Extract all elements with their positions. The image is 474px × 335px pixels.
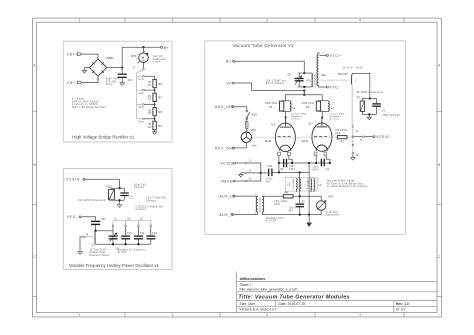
node grid bus (303, 94, 305, 96)
wire tap to VCSIG pin (354, 136, 363, 138)
svg-text:Diameter 50mm: Diameter 50mm (90, 254, 110, 257)
svg-text:Fan: Fan (252, 143, 257, 147)
node heater a (278, 162, 280, 164)
ground (R/C1) (367, 117, 371, 120)
node heater e (329, 162, 331, 164)
wire mod bus to C2 (261, 172, 268, 174)
frame zone ticks bottom (125, 313, 404, 317)
node R/C1 bottom (368, 113, 370, 115)
svg-text:Rev: 1.0: Rev: 1.0 (396, 302, 409, 306)
meter M?1 (317, 194, 340, 216)
wire R7-R8 (144, 102, 154, 108)
port VHT+ (67, 53, 82, 57)
wire SEC bottom to VTC- (318, 85, 326, 87)
node C9 bottom (112, 243, 114, 245)
svg-text:R9: R9 (158, 124, 162, 128)
capacitor C5 (289, 196, 306, 214)
svg-text:C5: C5 (301, 200, 305, 204)
wire top rail (111, 187, 124, 189)
svg-text:R?: R? (357, 95, 361, 99)
svg-text:R7: R7 (158, 96, 162, 100)
port AUX_15V (215, 105, 234, 109)
ground (bridge) (82, 70, 86, 73)
node meter branch (142, 46, 144, 48)
svg-text:VFO: VFO (67, 215, 76, 219)
svg-text:3mA: 3mA (138, 106, 144, 109)
svg-text:100n: 100n (312, 167, 319, 169)
vacuum tube U1 (265, 118, 295, 155)
node tap2 (154, 89, 156, 91)
grid wire (gray) (252, 136, 352, 138)
port VMOD (221, 179, 236, 183)
wire B+ to tank (235, 61, 305, 73)
svg-text:25W: 25W (274, 204, 280, 206)
pin SEC top (317, 53, 319, 56)
svg-text:B: B (34, 163, 36, 167)
transformer T1 primary (256, 197, 258, 213)
svg-text:Filament Xfmr: Filament Xfmr (266, 217, 284, 220)
tap bus (352, 127, 354, 152)
ground (C6) (120, 83, 124, 86)
svg-text:C?2: C?2 (268, 164, 273, 168)
svg-text:Parallel 500uH: Parallel 500uH (293, 178, 295, 189)
pin J2 (245, 172, 247, 174)
transformer T1 secondary (262, 197, 264, 213)
node rail B a (278, 171, 280, 173)
capacitor C11 (134, 227, 145, 245)
svg-text:C4: C4 (326, 167, 330, 171)
bottom rail R/C1 (362, 113, 376, 115)
svg-text:KP1-4 Vacuum: KP1-4 Vacuum (266, 83, 285, 85)
node R/C1 top (369, 97, 371, 99)
wire R2/L2 to U2 anode (321, 111, 323, 118)
ground (taps) (351, 158, 355, 161)
svg-text:15k 100W Wirewound: 15k 100W Wirewound (78, 199, 106, 202)
node tank top (303, 72, 305, 74)
svg-text:U1: U1 (271, 122, 275, 126)
tap stub 3 (137, 104, 143, 106)
port AUX_GND (215, 146, 235, 150)
capacitor C12 (146, 227, 157, 245)
wire VMOD to J3 (235, 180, 245, 182)
wire pickup top to R/C1 (352, 73, 370, 98)
svg-text:4 sets of 2 x HVP20: 4 sets of 2 x HVP20 (72, 103, 98, 106)
svg-text:Copper Tube: Copper Tube (90, 251, 107, 254)
svg-text:Title: Vacuum Tube Generator M: Title: Vacuum Tube Generator Modules (238, 294, 349, 300)
svg-text:P?1: P?1 (307, 80, 312, 83)
svg-text:M?2: M?2 (131, 54, 137, 58)
node rail B b (299, 171, 301, 173)
transformer core (315, 74, 316, 87)
wire VHT+ to bridge (82, 54, 99, 59)
svg-text:5x 80V: 5x 80V (118, 252, 127, 254)
svg-text:HVP-20 20kV 750mA: HVP-20 20kV 750mA (72, 100, 99, 103)
node bottom rail (118, 199, 120, 201)
tap pin J5b (352, 144, 354, 146)
svg-text:Ceramic: Ceramic (146, 200, 157, 203)
svg-text:Calibrated: Calibrated (326, 214, 340, 217)
capacitor C10 (121, 227, 132, 245)
primary coil PRI (311, 73, 314, 87)
svg-text:Variable Frequency Hartley Pow: Variable Frequency Hartley Power Oscilla… (69, 263, 160, 268)
wire tap1 to chain (144, 76, 154, 79)
wire SEC top to VTC+ (319, 54, 326, 56)
wire AUX_LD to T1 (235, 195, 258, 197)
svg-text:C10 = 500p 5kV: C10 = 500p 5kV (146, 198, 167, 200)
bridge pin labels (91, 57, 108, 81)
grid rail R2/L2 (318, 101, 328, 112)
svg-text:Ceramic: Ceramic (134, 186, 145, 189)
svg-text:EL34: EL34 (265, 139, 272, 143)
port B+ out (161, 46, 170, 50)
svg-text:M?1: M?1 (328, 194, 334, 198)
node tap3 (154, 104, 156, 106)
svg-text:80uF 450V: 80uF 450V (106, 79, 120, 81)
node heater d (315, 162, 317, 164)
svg-text:R2: R2 (306, 105, 310, 109)
svg-text:HR-100R: HR-100R (335, 130, 347, 132)
resistor R10 (78, 185, 114, 203)
node heater b (291, 162, 293, 164)
wire to main ground (308, 215, 310, 223)
svg-text:AUX_N: AUX_N (219, 213, 233, 217)
svg-text:VCSIG: VCSIG (66, 178, 80, 182)
svg-text:VTC+: VTC+ (330, 54, 342, 58)
svg-text:VHT-: VHT- (67, 81, 78, 85)
svg-text:M?3: M?3 (251, 128, 257, 132)
tap stub 2 (137, 89, 143, 91)
svg-text:6.3V 8A: 6.3V 8A (266, 220, 276, 223)
svg-text:100n: 100n (266, 179, 273, 181)
svg-text:U2: U2 (308, 122, 312, 126)
svg-text:HVBR: HVBR (106, 56, 114, 60)
meter M?2 (131, 47, 167, 63)
jumper pin C12 (150, 221, 152, 225)
svg-text:Resistor: Resistor (291, 117, 300, 120)
svg-text:3: 3 (266, 18, 268, 22)
ground (R9) (152, 132, 156, 135)
svg-text:KiCad E.D.A. kicad 4.0.7: KiCad E.D.A. kicad 4.0.7 (240, 307, 277, 311)
sheet: Vacuum Tube Generator (205, 41, 406, 234)
fan motor (241, 128, 257, 147)
port VHT- (67, 81, 82, 85)
wire L5 to bottom rail (96, 243, 113, 246)
svg-text:Vacuum Tube Generator v1: Vacuum Tube Generator v1 (233, 43, 294, 48)
note L5 (90, 248, 110, 257)
svg-text:L5: L5 (92, 243, 96, 247)
svg-text:Variable Air Capacitor: Variable Air Capacitor (118, 248, 146, 251)
wire AUX_N to T1 (234, 212, 258, 215)
inductor L3 (287, 178, 300, 192)
tap bus (136, 73, 138, 119)
capacitor C8 (91, 217, 105, 225)
svg-text:Date: 2015-07-15: Date: 2015-07-15 (279, 302, 306, 306)
tap stub 1 (137, 75, 143, 77)
svg-text:5kV: 5kV (289, 211, 294, 213)
svg-text:R4: R4 (285, 191, 289, 195)
anode arrow U2 (321, 117, 324, 120)
svg-text:2W: 2W (148, 99, 153, 101)
jumper J10 (125, 221, 127, 225)
wire R9 to ground (154, 130, 156, 132)
svg-text:475~450: 475~450 (106, 81, 117, 83)
wire ground to J2 (241, 173, 245, 174)
svg-text:3: 3 (266, 313, 268, 317)
port VCSIG in (66, 178, 85, 182)
tap stub 4 (137, 118, 143, 120)
capacitor C4 (312, 159, 329, 172)
svg-text:10 Turn 5/16": 10 Turn 5/16" (90, 248, 107, 251)
svg-text:8 x Diode: 8 x Diode (72, 99, 85, 101)
resistor R8 (153, 108, 156, 116)
bridge rectifier HVBR (89, 59, 106, 76)
svg-text:PICKUP: PICKUP (338, 72, 348, 76)
capacitor C7 (120, 184, 146, 200)
inductor L1 (290, 101, 306, 121)
wire bridge minus to ground (84, 68, 89, 71)
port VTC- (326, 86, 340, 90)
node heater c (308, 162, 310, 164)
node C8/L5 (94, 230, 96, 232)
jumper rail top (113, 220, 151, 222)
resistor R1 (265, 101, 284, 112)
port VCSIG out (373, 135, 390, 139)
node tap4 (154, 118, 156, 120)
note bifilar choke (327, 180, 368, 189)
svg-text:C7: C7 (129, 196, 133, 200)
ground (J8) (78, 252, 82, 255)
svg-text:B+: B+ (226, 60, 232, 64)
svg-text:VMOD: VMOD (221, 179, 233, 183)
resistor R7 (153, 93, 156, 101)
tap pin 3 (143, 104, 145, 106)
secondary coil SEC (317, 55, 318, 86)
pin J3 (245, 180, 247, 182)
wire J2 to mod bus (247, 172, 261, 174)
capacitor C3 (280, 159, 295, 171)
ground (J2) (239, 174, 243, 177)
svg-text:1mA: 1mA (138, 78, 144, 81)
svg-text:AMInnovations: AMInnovations (240, 277, 266, 281)
wire R6-R7 (144, 88, 154, 94)
svg-text:CP: CP (287, 73, 291, 77)
svg-text:2R1~10Rx: 2R1~10Rx (274, 201, 288, 203)
coupling link line (321, 79, 348, 81)
port VF (227, 81, 235, 85)
svg-text:1mA DC: 1mA DC (153, 55, 163, 58)
svg-text:C11: C11 (140, 231, 145, 235)
top rail R/C1 (362, 98, 376, 100)
svg-text:4: 4 (359, 313, 361, 317)
svg-text:J10: J10 (127, 217, 132, 220)
wire grid split (286, 91, 323, 101)
svg-text:5k 100W Wirewound: 5k 100W Wirewound (357, 91, 383, 94)
bifilar choke box (285, 177, 317, 191)
svg-text:2mA: 2mA (138, 92, 144, 95)
port B+ (226, 60, 235, 64)
node bottom rail gnd (308, 213, 310, 215)
resistor R? 5k (357, 91, 383, 115)
svg-text:4: 4 (359, 18, 361, 22)
svg-text:C6: C6 (128, 78, 132, 82)
tap pin 2 (143, 89, 145, 91)
svg-text:File: vacuum_tube_generator_1_: File: vacuum_tube_generator_1_2.sch (240, 288, 298, 292)
tap pin J6a (352, 152, 354, 154)
wire VCSIG to R10 node (85, 179, 120, 188)
sheet box 1 (63, 41, 172, 142)
sheet frame (33, 18, 442, 317)
inductor L5 (94, 231, 97, 243)
port AUX_LD (220, 195, 237, 199)
tap pin J4a (352, 126, 354, 128)
node VF bus (303, 89, 305, 91)
wire VHT- to bridge (82, 76, 99, 82)
resistor R9 (153, 121, 156, 130)
wire AUX_15V to SW1 (234, 107, 247, 111)
tap pin 1 (143, 75, 145, 77)
svg-text:~1: ~1 (96, 57, 100, 59)
wire to ground (368, 114, 370, 117)
svg-text:1: 1 (79, 313, 81, 317)
svg-text:Sheet: /: Sheet: / (240, 283, 252, 287)
capacitor C1 (372, 99, 400, 117)
port VFO (67, 215, 81, 219)
svg-text:VTC-: VTC- (330, 86, 341, 90)
node tank bottom (303, 86, 305, 88)
jumper J9 (112, 221, 114, 225)
svg-text:12h-1200pF set: 12h-1200pF set (266, 79, 286, 82)
wire VCSIG to J1 (236, 162, 245, 164)
wire C2 to rail B (273, 171, 310, 173)
resistor R3 (335, 130, 347, 143)
wire R8-R9 (144, 116, 154, 121)
wire AUX_GND to fan (234, 142, 246, 148)
sheet: Variable Frequency Hartley Power Oscillator (63, 169, 172, 270)
svg-text:B: B (438, 163, 440, 167)
svg-text:on 13mm diameter Ferrite Rope: on 13mm diameter Ferrite Rope (327, 185, 368, 188)
node mod bus (260, 172, 262, 174)
wire heater c through L4 to bottom rail (308, 163, 310, 215)
svg-text:2: 2 (172, 313, 174, 317)
svg-text:C12: C12 (152, 231, 157, 235)
svg-text:VCSIG: VCSIG (221, 161, 234, 165)
variable capacitor C9 (109, 227, 120, 251)
svg-text:VF: VF (227, 81, 233, 85)
svg-text:Ceramic: Ceramic (136, 208, 147, 211)
svg-text:C3: C3 (280, 167, 284, 171)
svg-text:R3: R3 (340, 140, 344, 144)
svg-text:R6: R6 (158, 82, 162, 86)
sheet: High Voltage Bridge Rectifier (63, 41, 172, 142)
svg-text:100n: 100n (289, 208, 296, 210)
port VTC+ (326, 54, 341, 58)
svg-text:100n: 100n (289, 166, 296, 168)
port VCSIG in (221, 161, 236, 165)
svg-text:Size: User: Size: User (240, 302, 257, 306)
svg-text:Pulse: Pulse (106, 84, 114, 86)
svg-text:50W: 50W (335, 133, 341, 135)
node C11 bottom (137, 243, 139, 245)
svg-text:VHT+: VHT+ (67, 53, 79, 57)
tap pin J5a (352, 136, 354, 138)
capacitor C6 (106, 68, 132, 87)
inductor L4 (308, 178, 322, 192)
frame zone ticks left (33, 111, 37, 296)
ground (R10/C7) (117, 205, 121, 208)
svg-text:1k Turn ~ 50uH: 1k Turn ~ 50uH (343, 67, 363, 70)
svg-text:A: A (142, 56, 145, 60)
wire T1 sec bottom to rail (262, 210, 321, 214)
jumper J11 (137, 221, 139, 225)
svg-text:630V: 630V (312, 169, 319, 171)
wire node to C9 column (96, 230, 113, 232)
node R10/C7 top (118, 187, 120, 189)
svg-text:B+: B+ (164, 46, 170, 50)
svg-text:5kV: 5kV (266, 181, 271, 183)
wire J1 to mod bus (247, 163, 261, 172)
pin VCSIG link (363, 136, 365, 138)
port AUX_N (219, 213, 233, 217)
svg-text:5mA: 5mA (138, 121, 144, 124)
capacitor C2 (266, 164, 273, 183)
svg-text:0-5mA: 0-5mA (153, 61, 161, 64)
svg-text:MMC 2k5 8kV: MMC 2k5 8kV (383, 115, 401, 117)
svg-text:R1: R1 (269, 105, 273, 109)
svg-text:2W: 2W (148, 85, 153, 87)
fuse F?1 (246, 118, 248, 128)
svg-text:AUX_15V: AUX_15V (215, 105, 234, 109)
wire R4 to meter (293, 196, 321, 201)
wire tap bottom to ground (352, 154, 354, 157)
svg-text:20kV 1.5A Bridge Rectifier: 20kV 1.5A Bridge Rectifier (72, 106, 106, 109)
svg-text:40 Turns of 1mm Bifilar wire: 40 Turns of 1mm Bifilar wire (327, 182, 364, 185)
tank top rail (298, 72, 312, 74)
tank bottom rail (113, 243, 151, 245)
connector J7 (143, 68, 145, 70)
svg-text:0-15 VAC: 0-15 VAC (326, 211, 338, 214)
wire to VCSIG port (364, 136, 373, 138)
svg-text:C8: C8 (101, 217, 105, 221)
svg-text:EL34: EL34 (302, 139, 309, 143)
frame zone labels (33, 18, 441, 317)
wire bottom rail to ground (111, 200, 124, 204)
svg-text:SEC: SEC (321, 73, 326, 77)
svg-text:C1: C1 (382, 109, 386, 113)
tap pin 4 (143, 118, 145, 120)
svg-text:High Voltage Bridge Rectifier: High Voltage Bridge Rectifier v1 (72, 135, 135, 140)
svg-text:Resistor: Resistor (330, 117, 339, 120)
svg-text:5W8 20W: 5W8 20W (265, 103, 278, 105)
heater rail (279, 156, 330, 163)
resistor R4 (274, 191, 293, 206)
svg-text:Calibrated: Calibrated (153, 58, 167, 61)
svg-text:SW1: SW1 (251, 113, 257, 117)
svg-text:Optional Bifilar Choke:: Optional Bifilar Choke: (327, 180, 356, 183)
switch SW1 (246, 110, 258, 119)
variable capacitor CP (266, 73, 304, 87)
svg-text:R8: R8 (158, 110, 162, 114)
svg-text:C10: C10 (127, 231, 132, 235)
node C10 bottom (124, 243, 126, 245)
resistor R6 (153, 79, 156, 87)
wire bridge out to C6 node (107, 67, 122, 69)
svg-text:5W8 20W: 5W8 20W (302, 103, 315, 105)
wire pickup bottom to taps (351, 84, 353, 125)
svg-text:C11/C12 = 1000p 5kV: C11/C12 = 1000p 5kV (136, 206, 164, 208)
transformer T1 core (260, 197, 261, 212)
connector J8 (83, 236, 85, 238)
title block (237, 271, 438, 312)
